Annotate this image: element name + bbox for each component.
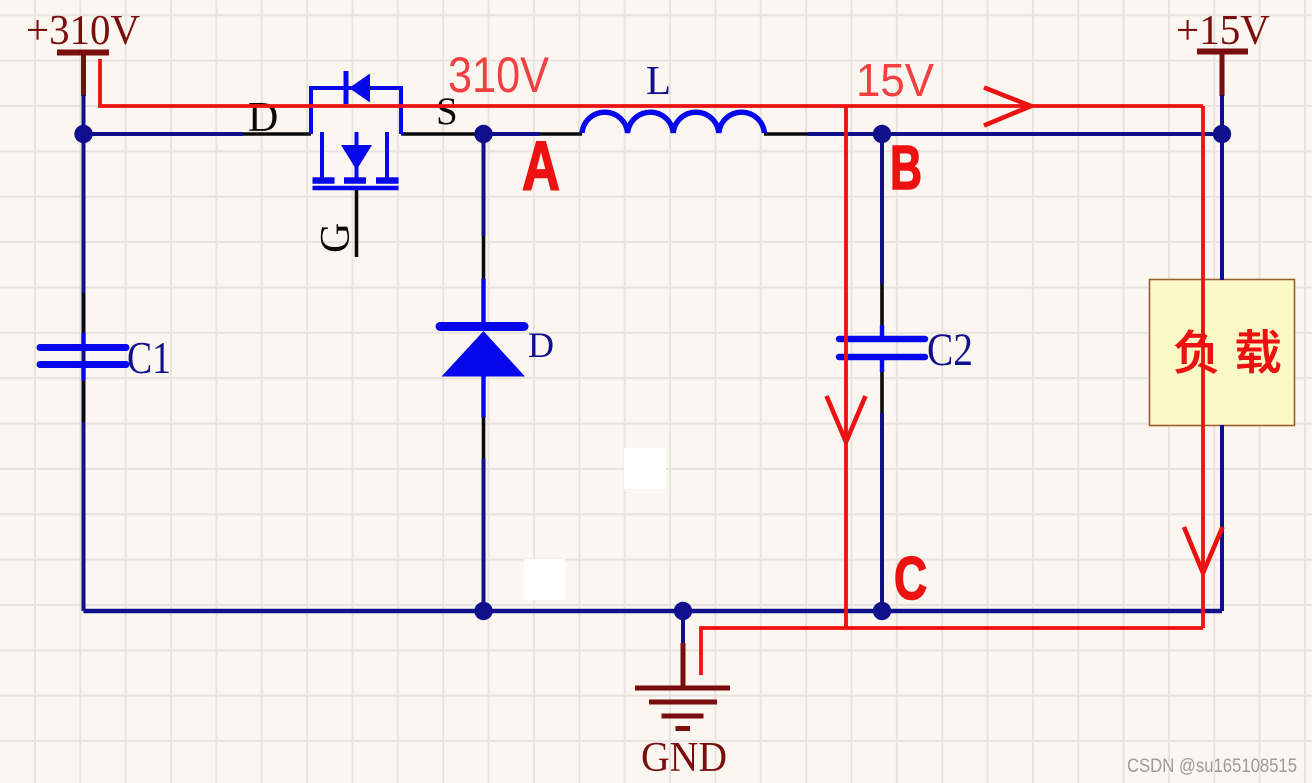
svg-text:B: B — [890, 134, 922, 203]
junction node A — [474, 125, 492, 143]
arrow: current direction down (C2 branch) — [827, 396, 866, 442]
wire: diode anode pin (black) — [482, 417, 486, 459]
diode D (blue) — [440, 279, 525, 417]
capacitor C1 (blue) — [40, 333, 126, 381]
wire: C2 to bottom rail (navy) — [880, 413, 884, 611]
svg-text:C2: C2 — [927, 324, 973, 376]
wire: red return path bottom — [701, 628, 1203, 675]
wire: C1 top branch (navy) — [82, 134, 86, 293]
wire: C1 top pin (black) — [82, 293, 86, 333]
wire: C1 bottom pin (black) — [82, 381, 86, 422]
svg-text:D: D — [528, 325, 554, 365]
power symbol +310V — [57, 52, 109, 96]
svg-text:+310V: +310V — [26, 8, 140, 54]
wire: red right side down through load — [1201, 106, 1205, 628]
wire: inductor right pin (black) — [764, 132, 808, 136]
wire: ground stem (navy) — [681, 611, 685, 643]
ground GND symbol — [635, 643, 730, 729]
junction node (diode bottom) — [474, 602, 492, 620]
wire: diode to bottom rail (navy) — [482, 459, 486, 611]
power symbol +15V — [1197, 51, 1248, 96]
wire: MOSFET drain pin (black) — [243, 132, 311, 136]
wire: node A branch down (navy) — [482, 134, 486, 236]
junction node (top left) — [74, 125, 92, 143]
svg-text:+15V: +15V — [1176, 8, 1270, 54]
wire: MOSFET source pin to node A (black) — [401, 132, 475, 136]
junction node (ground) — [674, 602, 692, 620]
wire: +310V stem (navy) — [82, 95, 86, 134]
arrow: current direction down (load branch) — [1184, 527, 1223, 573]
arrow: current direction right (top rail) — [984, 88, 1031, 126]
svg-text:310V: 310V — [448, 47, 550, 103]
wire: red current path from +310V along top — [100, 59, 1203, 106]
junction node C — [873, 602, 891, 620]
svg-text:15V: 15V — [856, 54, 934, 106]
wire: right rail to load top (navy) — [1220, 134, 1224, 280]
wire: diode cathode pin (black) — [482, 236, 486, 279]
svg-text:L: L — [646, 57, 671, 103]
svg-text:C1: C1 — [127, 332, 171, 383]
wire: C2 top branch (navy) — [880, 134, 884, 284]
wire: left rail vertical (navy) — [82, 134, 86, 611]
wire: top rail right (navy) — [808, 132, 1222, 136]
wire: node A to inductor (navy then black pin) — [475, 132, 582, 136]
svg-text:C: C — [894, 545, 927, 612]
inductor L (blue) — [582, 112, 764, 133]
wire: +15V stem (navy) — [1220, 95, 1224, 134]
junction node (top right) — [1213, 125, 1231, 143]
wire: C2 bottom pin (black) — [880, 372, 884, 413]
svg-text:GND: GND — [641, 735, 727, 781]
wire: bottom rail (navy) — [84, 609, 1223, 614]
svg-text:A: A — [522, 127, 560, 205]
mosfet Q1 body and symbol (blue) — [311, 71, 401, 188]
junction node B — [873, 125, 891, 143]
wire: gate lead (black) — [355, 190, 359, 257]
svg-text:D: D — [248, 95, 278, 141]
capacitor C2 (blue) — [839, 325, 925, 372]
wire: load bottom to bottom rail (navy) — [1220, 425, 1224, 611]
load box (负载) — [1150, 280, 1295, 426]
svg-text:G: G — [313, 223, 359, 253]
wire: red branch down at C2 (x=846) — [844, 106, 848, 628]
svg-text:CSDN @su165108515: CSDN @su165108515 — [1127, 756, 1297, 777]
wire: top rail left (navy) — [84, 132, 244, 136]
wire: C2 top pin (black) — [880, 284, 884, 325]
